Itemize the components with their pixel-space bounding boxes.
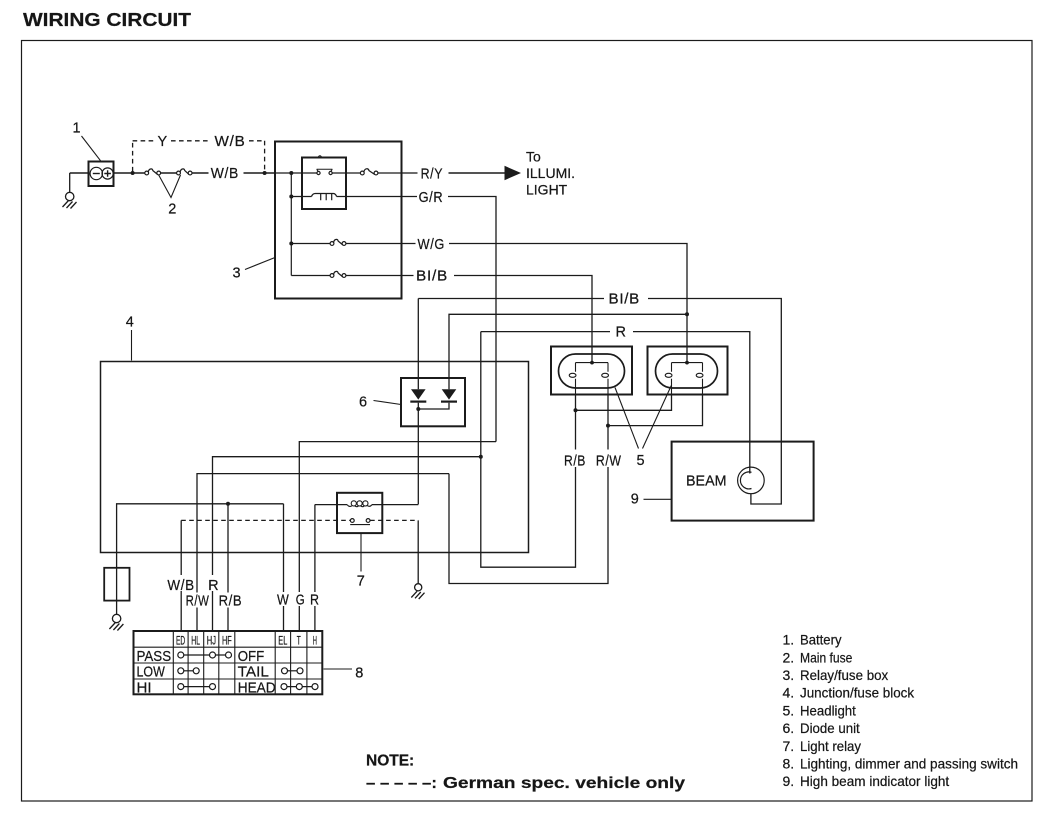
svg-text:High beam indicator light: High beam indicator light xyxy=(800,773,949,789)
svg-text:9.: 9. xyxy=(783,773,795,789)
node junction dot right of dashed rail xyxy=(263,171,267,175)
svg-text:R: R xyxy=(310,593,320,609)
leader triangle for label 2 xyxy=(159,175,181,198)
svg-text:R: R xyxy=(208,578,219,594)
svg-text:– – – – –:: – – – – –: xyxy=(366,775,437,792)
svg-text:LOW: LOW xyxy=(137,664,166,681)
wire EL column branch xyxy=(283,504,285,592)
svg-text:3: 3 xyxy=(233,266,241,282)
svg-text:4.: 4. xyxy=(783,685,795,701)
node junction dot R net xyxy=(479,455,483,459)
light relay 7 contact xyxy=(350,519,370,525)
relay/fuse box 3 xyxy=(275,142,402,299)
wire contact to switch ED column xyxy=(180,520,182,575)
svg-text:2.: 2. xyxy=(783,649,795,665)
wire W to EL xyxy=(283,606,285,631)
node junction dot W/G row xyxy=(289,242,293,246)
svg-text:5: 5 xyxy=(637,453,645,469)
wire dashed german-spec rail Y / W/B xyxy=(133,141,265,172)
svg-text:G/R: G/R xyxy=(419,190,444,206)
wire coil to switch H column xyxy=(314,505,316,593)
switch header labels xyxy=(176,634,317,648)
main fuse 2 xyxy=(145,169,192,175)
svg-text:HI: HI xyxy=(137,679,152,696)
svg-text:BI/B: BI/B xyxy=(416,269,448,285)
svg-text:T: T xyxy=(297,634,301,648)
switch row labels xyxy=(137,648,276,697)
svg-text:R/W: R/W xyxy=(596,454,622,470)
node junction dot W net HF branch xyxy=(226,502,230,506)
diode D1 xyxy=(410,299,426,505)
wire R/B to HF xyxy=(227,608,229,632)
wire to mid ground xyxy=(417,520,419,583)
svg-text:HEAD: HEAD xyxy=(238,679,276,696)
wire G/R to switch T column xyxy=(299,442,496,592)
svg-text:W/B: W/B xyxy=(167,578,194,594)
junction/fuse block 4 xyxy=(101,362,529,553)
svg-text:9: 9 xyxy=(631,491,639,507)
svg-text:W/G: W/G xyxy=(418,237,446,253)
node junction dot G/R row xyxy=(289,195,293,199)
svg-text:1.: 1. xyxy=(783,632,795,648)
relay U2 contact on R/Y row xyxy=(275,169,360,174)
svg-text:1: 1 xyxy=(73,121,81,137)
svg-text:R: R xyxy=(616,325,627,341)
svg-text:2: 2 xyxy=(168,202,176,218)
wire R/W under-route xyxy=(449,467,608,584)
wire BI/B branch to beam indicator xyxy=(418,299,781,505)
fuse on BI/B row xyxy=(291,271,401,277)
headlight 5 right stadium xyxy=(656,354,718,388)
headlight 5 left bulb xyxy=(569,363,608,395)
wire W/B to ED xyxy=(180,591,182,631)
fuse F3 bottom left xyxy=(104,568,129,601)
svg-text:OFF: OFF xyxy=(238,648,265,665)
lighting dimmer passing switch 8 table xyxy=(134,631,323,694)
node junction dot main line into box 3 xyxy=(289,171,293,175)
label 8 with leader xyxy=(324,668,353,670)
svg-text:TAIL: TAIL xyxy=(238,664,269,681)
wire R/W to HL xyxy=(196,608,198,632)
svg-text:Relay/fuse box: Relay/fuse box xyxy=(800,667,888,683)
switch contacts TAIL row xyxy=(282,668,304,674)
svg-text:Y: Y xyxy=(158,134,168,150)
svg-text:LIGHT: LIGHT xyxy=(526,182,568,198)
svg-text:NOTE:: NOTE: xyxy=(366,753,414,770)
headlight 5 left stadium xyxy=(559,354,625,388)
wire dashed contact right german spec xyxy=(370,519,418,521)
wire R/W to switch HL column xyxy=(197,474,449,593)
arrow to illumination light xyxy=(449,172,506,174)
svg-text:HF: HF xyxy=(222,634,232,648)
wire R/B under-route xyxy=(481,332,576,568)
svg-text:R/Y: R/Y xyxy=(421,167,444,183)
wire W net with fuse to ground xyxy=(117,504,284,568)
svg-text:H: H xyxy=(313,634,317,648)
svg-text:6.: 6. xyxy=(783,720,795,736)
svg-text:Headlight: Headlight xyxy=(800,702,856,718)
wire R to switch HJ column xyxy=(213,457,481,575)
svg-text:BI/B: BI/B xyxy=(609,292,641,308)
svg-text:ED: ED xyxy=(176,634,185,648)
ground below fuse F3 xyxy=(109,601,123,631)
wire W/B main feed with main fuse 2 xyxy=(114,172,276,174)
node junction dot link1 xyxy=(574,408,578,412)
svg-text:WIRING CIRCUIT: WIRING CIRCUIT xyxy=(23,9,192,30)
svg-text:To: To xyxy=(526,149,541,165)
wire R/Y out with label xyxy=(402,172,418,174)
svg-text:PASS: PASS xyxy=(137,648,172,665)
svg-text:8.: 8. xyxy=(783,756,795,772)
svg-text:Junction/fuse block: Junction/fuse block xyxy=(800,685,915,701)
battery 1 xyxy=(89,162,114,187)
wire headlight link R/B side xyxy=(576,395,672,411)
svg-text:EL: EL xyxy=(278,634,287,648)
relay U2 inner box in box 3 xyxy=(302,158,346,210)
svg-text:R/B: R/B xyxy=(219,594,243,610)
relay U2 top bump xyxy=(318,156,321,158)
node junction dot right bulb common xyxy=(685,361,689,365)
wire R high beam with label xyxy=(481,332,750,474)
fuse on W/G row xyxy=(291,239,401,245)
switch contacts PASS row xyxy=(178,652,232,658)
svg-text:3.: 3. xyxy=(783,667,795,683)
svg-text:4: 4 xyxy=(126,315,134,331)
svg-text:BEAM: BEAM xyxy=(686,474,727,490)
wire battery to main line xyxy=(70,172,89,174)
svg-text:6: 6 xyxy=(359,395,367,411)
light relay 7 coil xyxy=(315,501,418,507)
high beam indicator 9 box xyxy=(672,442,814,521)
legend list xyxy=(783,632,1019,790)
wire R/W pin drop with label gap xyxy=(607,426,609,450)
node junction dot left bulb common xyxy=(590,361,594,365)
svg-text:W/B: W/B xyxy=(211,166,239,182)
wire vertical bus inside box 3 xyxy=(290,173,292,276)
svg-text:HL: HL xyxy=(191,634,200,648)
node junction dot left of dashed rail xyxy=(131,171,135,175)
svg-text:7: 7 xyxy=(357,573,365,589)
diode unit 6 box xyxy=(401,378,465,426)
svg-text:W/B: W/B xyxy=(215,134,246,150)
switch contacts LOW row xyxy=(178,668,199,674)
svg-text:ILLUMI.: ILLUMI. xyxy=(526,165,575,181)
svg-text:Main fuse: Main fuse xyxy=(800,649,853,665)
svg-text:Battery: Battery xyxy=(800,632,842,648)
svg-text:Lighting, dimmer and passing s: Lighting, dimmer and passing switch xyxy=(800,756,1018,772)
wire diode to W/G node xyxy=(449,314,687,389)
svg-text:Diode unit: Diode unit xyxy=(800,720,860,736)
diode D2 xyxy=(418,389,457,409)
svg-text:5.: 5. xyxy=(783,702,795,718)
wire HF column branch xyxy=(227,504,229,593)
headlight 5 right housing xyxy=(648,347,728,395)
relay U2 coil on G/R row xyxy=(291,194,401,201)
fuse on R/Y row xyxy=(360,169,401,175)
svg-text:7.: 7. xyxy=(783,738,795,754)
wire R to H xyxy=(314,606,316,631)
svg-text:HJ: HJ xyxy=(207,634,216,648)
svg-text:R/W: R/W xyxy=(186,594,210,610)
light relay 7 box xyxy=(337,493,382,533)
wire headlight link R/W side xyxy=(608,395,703,426)
svg-text:W: W xyxy=(277,593,289,609)
headlight 5 right bulb xyxy=(665,363,703,395)
high beam indicator bulb xyxy=(738,467,765,494)
svg-text:G: G xyxy=(296,593,306,609)
switch contacts HI row xyxy=(178,684,216,690)
svg-text:8: 8 xyxy=(355,666,363,682)
wire dashed contact left german spec xyxy=(181,519,350,521)
battery U1 ground xyxy=(63,173,77,209)
switch contacts HEAD row xyxy=(281,684,318,690)
label 7 with leader xyxy=(360,533,362,571)
svg-text:R/B: R/B xyxy=(564,454,586,470)
wire G to T xyxy=(298,606,300,631)
node junction dot diode cathode xyxy=(416,407,420,411)
wire R to HJ xyxy=(212,591,214,631)
wire R/B pin drop with label gap xyxy=(575,410,577,449)
svg-text:German spec. vehicle only: German spec. vehicle only xyxy=(443,775,685,792)
svg-text:Light relay: Light relay xyxy=(800,738,861,754)
node junction dot link2 xyxy=(606,424,610,428)
ground mid xyxy=(411,584,424,599)
node junction dot on W/G vertical xyxy=(685,312,689,316)
headlight 5 left housing xyxy=(551,347,632,395)
